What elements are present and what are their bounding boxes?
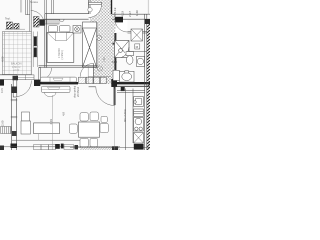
toilet <box>126 52 134 65</box>
right exterior wall <box>145 14 147 150</box>
extra dimension lines top-left <box>19 0 21 13</box>
small basin right <box>136 57 144 67</box>
bedroom bottom wall <box>39 66 98 68</box>
washing machine M box <box>135 44 140 49</box>
white sector under living room door swing <box>80 63 93 76</box>
bathroom mid divider <box>117 51 147 53</box>
svg-text:1.60: 1.60 <box>135 10 139 16</box>
ceiling lamp symbol <box>73 26 81 34</box>
bathroom top wall <box>112 14 150 19</box>
sofa back cushions <box>41 77 77 82</box>
dark posts on bottom window band <box>0 146 4 151</box>
kitchen cabinets <box>134 133 144 144</box>
equipment boxes above balcony <box>7 22 13 29</box>
kitchen left guide line <box>114 89 116 151</box>
bathroom internal wall with door <box>128 32 147 34</box>
left exterior wall <box>12 84 17 150</box>
terrace hatch bottom <box>80 147 120 150</box>
svg-text:4.19: 4.19 <box>49 119 53 125</box>
floor drain symbol in hall <box>96 35 102 71</box>
bathroom left wall <box>114 33 116 70</box>
dining chair left <box>69 124 77 133</box>
dark window joint on left wall <box>11 87 17 94</box>
living room door swing from hall <box>80 63 93 76</box>
wall ticks on left wall <box>11 100 17 118</box>
bedroom door leaf and swing <box>89 2 102 4</box>
entry door leaf living room to balcony <box>13 76 19 81</box>
svg-text:2.17: 2.17 <box>128 11 132 17</box>
svg-text:1.60: 1.60 <box>103 57 106 62</box>
svg-text:+0.02: +0.02 <box>13 69 20 72</box>
dishwasher <box>134 109 144 116</box>
svg-text:170/200: 170/200 <box>57 48 61 58</box>
bedroom top wall <box>45 14 89 20</box>
dining chairs bottom <box>80 138 88 147</box>
radiator on left wall <box>1 127 12 134</box>
dark lintel block bathroom top-left <box>115 17 123 23</box>
kitchen counter outline <box>117 89 145 151</box>
bedroom left wall <box>45 14 47 68</box>
svg-text:Terasa: Terasa <box>30 0 38 4</box>
dark mark bottom near terrace <box>112 146 118 150</box>
kitchen door pier dark <box>111 79 117 87</box>
hall cabinets row <box>79 77 107 83</box>
balcony sliding door frame <box>17 75 34 80</box>
wardrobe with X <box>83 22 97 67</box>
svg-text:20.55m2: 20.55m2 <box>76 86 80 97</box>
wall stubs above balcony <box>26 0 32 32</box>
balcony tiled floor <box>3 32 32 75</box>
bedroom right wall upper <box>89 0 90 14</box>
balcony bottom wall <box>0 75 17 80</box>
dining chairs top <box>80 113 88 121</box>
kitchen top thick wall <box>113 82 150 84</box>
folded duvet rect <box>56 33 67 41</box>
bedroom door to living room: leaf + swing <box>39 68 41 81</box>
bottom wall of living room <box>12 139 80 141</box>
right wall hatch <box>147 19 150 150</box>
tall cabinet with X in bathroom <box>131 29 143 41</box>
bathroom door swing <box>115 20 128 33</box>
white sector under bathroom door swing <box>115 20 128 33</box>
washbasin counter <box>113 71 134 83</box>
pillow right <box>60 26 71 32</box>
white sector under bedroom door swing <box>89 5 102 18</box>
svg-text:Tepl.: Tepl. <box>5 17 11 21</box>
kitchen door leaf + swing <box>89 86 96 88</box>
pillow left <box>48 26 57 32</box>
bed <box>47 33 74 63</box>
svg-text:(1.95m): (1.95m) <box>60 50 64 59</box>
svg-text:0.15: 0.15 <box>1 88 4 93</box>
hall boundary line <box>87 66 89 84</box>
door arc top-left <box>31 11 45 25</box>
dark stub at left end of balcony wall <box>0 80 4 86</box>
wall extension lines above bedroom <box>45 0 54 14</box>
window piers between balcony and bedroom <box>34 37 37 47</box>
svg-text:4.8: 4.8 <box>62 112 66 116</box>
window band bottom <box>34 144 74 149</box>
dining chair right <box>100 123 108 132</box>
thick wall band above sofa <box>34 82 78 84</box>
kitchen sink <box>134 97 144 107</box>
hall crosshatched floor <box>88 0 116 84</box>
stove with burners <box>134 118 144 132</box>
dark pier at bedroom top-left corner <box>40 19 46 25</box>
svg-text:4.60: 4.60 <box>0 56 4 62</box>
dark wall line above bathroom <box>111 0 113 14</box>
fridge dark block <box>134 144 144 150</box>
coffee table <box>34 123 60 134</box>
svg-text:2.60: 2.60 <box>0 120 4 126</box>
blanket fold lines <box>47 33 74 41</box>
sofa seat <box>42 86 71 92</box>
svg-text:60s 2.60m: 60s 2.60m <box>123 108 127 122</box>
svg-text:A=5.19: A=5.19 <box>113 7 117 17</box>
dining table <box>79 122 100 137</box>
stub below kitchen wall <box>121 87 125 91</box>
svg-text:84.R: 84.R <box>112 61 117 64</box>
top right edge dimension line <box>147 0 149 14</box>
radiator under bedroom window <box>45 20 64 25</box>
corner shower tray <box>115 41 130 58</box>
footstool bump <box>45 93 57 97</box>
dimension line vertical center <box>51 95 53 150</box>
svg-text:4.19: 4.19 <box>120 11 124 17</box>
TV cabinet <box>21 112 31 134</box>
hatched duct block <box>34 17 40 28</box>
dining stool top-right <box>101 116 107 122</box>
